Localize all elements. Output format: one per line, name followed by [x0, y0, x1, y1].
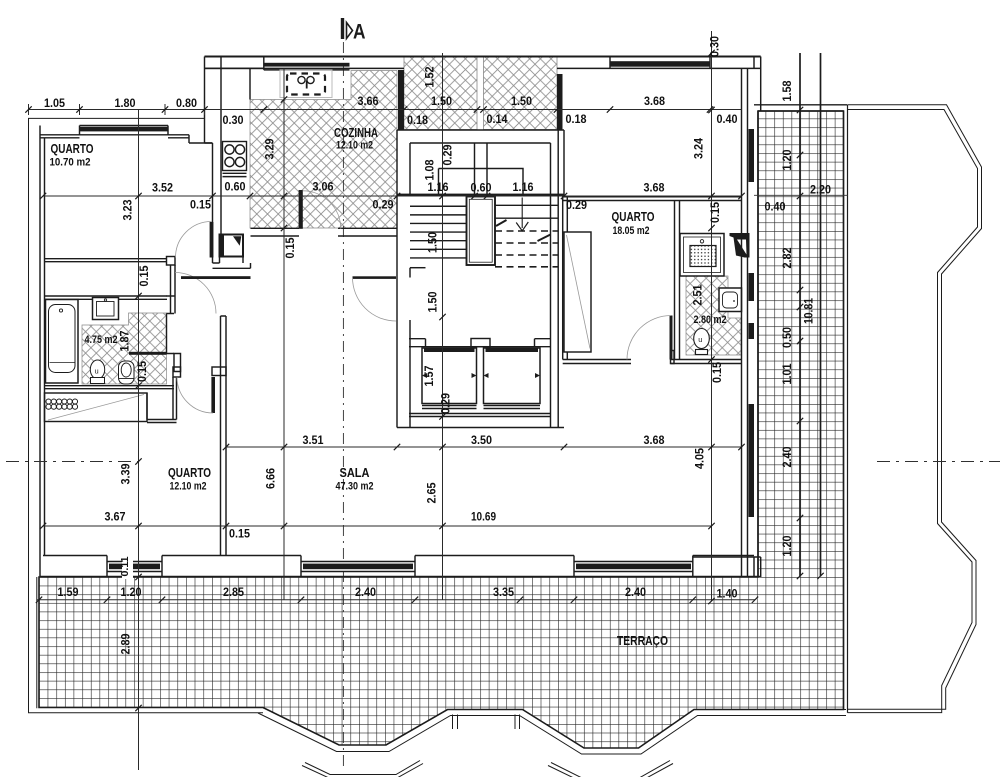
svg-text:2.65: 2.65	[425, 482, 439, 503]
bedroom2 door jamb	[173, 367, 181, 377]
section line A (dash-dot)	[342, 42, 344, 770]
top wall inner lines	[205, 67, 761, 69]
stair direction arrow	[521, 198, 523, 229]
svg-text:1.50: 1.50	[426, 291, 440, 312]
dim vline x284	[283, 68, 285, 599]
svg-text:12.10 m2: 12.10 m2	[170, 481, 207, 493]
bathroom2 hatched floor	[686, 276, 741, 355]
svg-text:1.50: 1.50	[431, 94, 452, 108]
svg-text:1.20: 1.20	[780, 535, 794, 556]
hall step walls	[213, 257, 251, 269]
svg-text:1.20: 1.20	[121, 585, 142, 599]
bedroom2 right wall	[221, 316, 227, 556]
bay middle wall stubs	[453, 715, 520, 730]
svg-text:0.80: 0.80	[176, 96, 197, 110]
duct column	[220, 235, 244, 257]
svg-text:1.16: 1.16	[428, 180, 449, 194]
hall thick line	[181, 276, 251, 279]
svg-text:2.40: 2.40	[355, 585, 376, 599]
svg-text:18.05 m2: 18.05 m2	[613, 225, 650, 237]
svg-text:1.58: 1.58	[780, 80, 794, 101]
svg-text:1.57: 1.57	[422, 365, 436, 386]
outer outline right bay window	[848, 105, 982, 710]
bedroom1 top wall	[40, 135, 213, 143]
svg-text:3.52: 3.52	[152, 181, 173, 195]
svg-text:2.85: 2.85	[223, 585, 244, 599]
svg-text:1.08: 1.08	[423, 159, 437, 180]
stair treads right dashed	[495, 231, 558, 267]
dim top-left vline ticks	[29, 104, 205, 115]
svg-text:4.05: 4.05	[693, 448, 707, 469]
svg-text:3.06: 3.06	[313, 180, 334, 194]
svg-text:1.50: 1.50	[511, 94, 532, 108]
black wall piece left of shaft1	[398, 70, 404, 130]
svg-text:3.67: 3.67	[105, 510, 126, 524]
elevator block top wall	[409, 339, 551, 347]
svg-text:1.20: 1.20	[780, 149, 794, 170]
bedroom3 window top	[610, 61, 710, 66]
sala-stair door arc	[353, 278, 397, 322]
stair newel walls	[467, 197, 496, 266]
svg-text:TERRAÇO: TERRAÇO	[617, 634, 668, 648]
bedroom2 top wall	[147, 377, 177, 423]
svg-text:0.50: 0.50	[780, 327, 794, 348]
svg-text:0.60: 0.60	[225, 180, 246, 194]
svg-text:2.40: 2.40	[780, 446, 794, 467]
kitchen window	[205, 57, 350, 70]
kitchen counter edge	[249, 68, 251, 99]
svg-text:COZINHA: COZINHA	[334, 126, 378, 140]
svg-text:2.51: 2.51	[691, 284, 705, 305]
bathroom1 bottom wall	[45, 386, 175, 389]
svg-text:12.10 m2: 12.10 m2	[336, 140, 373, 152]
svg-text:2.82: 2.82	[780, 247, 794, 268]
dim line terrace y600	[37, 599, 755, 601]
svg-text:3.23: 3.23	[121, 199, 135, 220]
right wall window1	[749, 129, 755, 182]
svg-text:1.80: 1.80	[115, 96, 136, 110]
toilet	[90, 360, 104, 379]
bathtub	[46, 300, 79, 384]
svg-text:0.29: 0.29	[441, 144, 455, 165]
outer building outline left	[29, 118, 264, 712]
centerline right	[877, 461, 1000, 463]
svg-text:3.29: 3.29	[263, 138, 277, 159]
sala-stair door leaf	[353, 276, 397, 279]
svg-text:3.66: 3.66	[358, 94, 379, 108]
balcony 2.20 line	[754, 194, 848, 196]
bedroom2 door leaf	[211, 377, 215, 413]
bath2 toilet	[694, 329, 710, 349]
dim line y526	[43, 525, 712, 527]
kitchen door leaf	[299, 190, 303, 229]
svg-text:2.20: 2.20	[810, 183, 831, 197]
bath2 partition wall	[675, 201, 680, 360]
shower	[680, 234, 724, 277]
dim vline x711.5	[711, 31, 713, 601]
svg-text:3.68: 3.68	[644, 94, 665, 108]
svg-text:0.15: 0.15	[135, 361, 149, 382]
bathroom1 hatched floor	[82, 313, 167, 384]
black corner column bath2	[730, 233, 750, 258]
svg-text:3.68: 3.68	[644, 181, 665, 195]
bidet	[119, 361, 135, 384]
svg-text:1.05: 1.05	[44, 96, 65, 110]
svg-text:10.81: 10.81	[802, 298, 816, 324]
kitchen door arc	[303, 191, 341, 229]
dim vline x442.5	[442, 53, 444, 600]
balcony left border	[757, 111, 759, 577]
bedroom1 door leaf	[210, 222, 214, 258]
dim line top	[29, 109, 742, 111]
svg-text:2.89: 2.89	[119, 633, 133, 654]
balcony top border	[754, 105, 848, 111]
svg-text:0.40: 0.40	[717, 112, 738, 126]
kitchen south wall	[251, 228, 398, 236]
svg-text:0.15: 0.15	[190, 198, 211, 212]
svg-text:0.15: 0.15	[710, 362, 724, 383]
stove	[223, 142, 247, 171]
svg-text:2.40: 2.40	[625, 585, 646, 599]
dimension ticks	[25, 106, 31, 112]
svg-text:1.59: 1.59	[58, 585, 79, 599]
svg-text:3.51: 3.51	[303, 433, 324, 447]
svg-text:6.66: 6.66	[264, 468, 278, 489]
bathroom1 partition thick line	[129, 352, 167, 355]
stair treads left flight	[410, 206, 467, 258]
svg-text:0.15: 0.15	[229, 527, 250, 541]
light shaft 2 hatched	[484, 57, 558, 130]
balcony right border double line	[844, 105, 848, 713]
svg-text:1.16: 1.16	[513, 180, 534, 194]
svg-text:3.39: 3.39	[119, 463, 133, 484]
bathroom1 sink	[93, 298, 119, 320]
bedroom2 door arc	[177, 377, 213, 413]
svg-text:0.14: 0.14	[487, 112, 508, 126]
svg-text:0.30: 0.30	[223, 113, 244, 127]
svg-text:1.01: 1.01	[780, 363, 794, 384]
elevator block bottom wall	[397, 414, 564, 428]
svg-text:2.80 m2: 2.80 m2	[694, 314, 727, 326]
window label 0.11 backing	[122, 554, 133, 579]
black wall piece right of shaft2	[557, 74, 563, 130]
svg-text:3.24: 3.24	[692, 138, 706, 159]
svg-text:0.60: 0.60	[471, 181, 492, 195]
dim line y196	[43, 195, 742, 197]
elevator center stub	[471, 339, 490, 347]
bedroom3 left wall	[563, 196, 568, 360]
svg-text:47.30 m2: 47.30 m2	[336, 481, 374, 493]
bedroom1 bottom wall	[45, 259, 167, 262]
wall between kitchen and bedroom1	[205, 57, 222, 258]
dim vline x820.5	[820, 53, 822, 576]
svg-text:0.30: 0.30	[708, 36, 722, 57]
svg-text:0.29: 0.29	[566, 198, 587, 212]
svg-text:1.40: 1.40	[717, 587, 738, 601]
terrace bay window outlines	[263, 708, 846, 749]
bedroom3 top wall	[563, 197, 742, 201]
bedroom3 bottom wall	[563, 360, 742, 364]
stair floor thick line	[397, 194, 564, 197]
svg-text:0.40: 0.40	[765, 200, 786, 214]
svg-text:0.11: 0.11	[119, 556, 131, 576]
svg-text:0.15: 0.15	[708, 202, 722, 223]
section marker A symbol	[341, 18, 344, 39]
stair inner wall line	[410, 267, 426, 269]
svg-text:SALA: SALA	[340, 466, 370, 480]
elevator 2 cab	[484, 348, 541, 404]
light shaft 1 hatched	[404, 57, 477, 130]
bathroom1 door wall jambs	[167, 314, 175, 354]
bottom window3	[574, 562, 693, 572]
elevator 1 cab	[422, 348, 477, 404]
bedroom3 wardrobe	[564, 232, 591, 352]
closet bedroom2	[45, 393, 148, 422]
svg-text:QUARTO: QUARTO	[51, 142, 94, 156]
bathroom1 top wall	[45, 296, 168, 299]
right wall window4	[749, 404, 755, 517]
svg-text:0.18: 0.18	[566, 112, 587, 126]
closet radiator circles	[46, 399, 51, 404]
bath2 sink	[719, 288, 742, 312]
svg-text:A: A	[353, 20, 366, 44]
svg-text:4.75 m2: 4.75 m2	[85, 334, 118, 346]
stair treads right solid	[495, 205, 558, 218]
bedroom1 window	[80, 126, 169, 135]
bottom wall piers	[40, 556, 761, 577]
svg-text:u: u	[698, 335, 702, 344]
svg-text:0.18: 0.18	[407, 113, 428, 127]
svg-text:10.69: 10.69	[471, 510, 496, 524]
centerline left	[6, 461, 138, 463]
left outer wall	[40, 126, 45, 577]
terrace left border	[36, 577, 38, 708]
apartment right wall	[742, 57, 761, 577]
bottom window1	[107, 562, 162, 572]
terrace and balcony tiled floor	[39, 111, 844, 748]
stairwell outer walls	[397, 130, 564, 428]
svg-text:0.29: 0.29	[439, 393, 453, 414]
svg-text:QUARTO: QUARTO	[168, 466, 211, 480]
dim vline x800	[799, 53, 801, 576]
bathroom1 door arc	[175, 273, 216, 314]
svg-text:QUARTO: QUARTO	[612, 210, 655, 224]
svg-text:3.68: 3.68	[644, 433, 665, 447]
stairwell landing inner wall	[439, 143, 524, 195]
svg-text:0.15: 0.15	[137, 265, 151, 286]
svg-text:1.52: 1.52	[423, 66, 437, 87]
svg-text:3.35: 3.35	[493, 585, 514, 599]
bedroom1 door arc	[176, 222, 212, 258]
svg-text:0.29: 0.29	[373, 198, 394, 212]
dim line y447	[226, 446, 742, 448]
right wall window3	[749, 323, 755, 339]
svg-text:u: u	[95, 367, 99, 376]
kitchen sink	[280, 70, 332, 98]
kitchen hatched floor	[250, 71, 397, 229]
dim vline x138.5	[138, 110, 140, 771]
bedroom3 door leaf	[670, 316, 673, 360]
top wall outer line	[205, 56, 761, 58]
right wall window2	[749, 273, 755, 301]
svg-text:10.70 m2: 10.70 m2	[50, 157, 91, 169]
svg-text:1.87: 1.87	[118, 330, 132, 351]
svg-text:1.50: 1.50	[426, 232, 440, 253]
svg-text:3.50: 3.50	[471, 433, 492, 447]
bottom window2	[301, 562, 415, 572]
bedroom3 door arc	[627, 316, 671, 360]
hall wall piece left	[167, 257, 176, 266]
svg-text:0.15: 0.15	[283, 237, 297, 258]
